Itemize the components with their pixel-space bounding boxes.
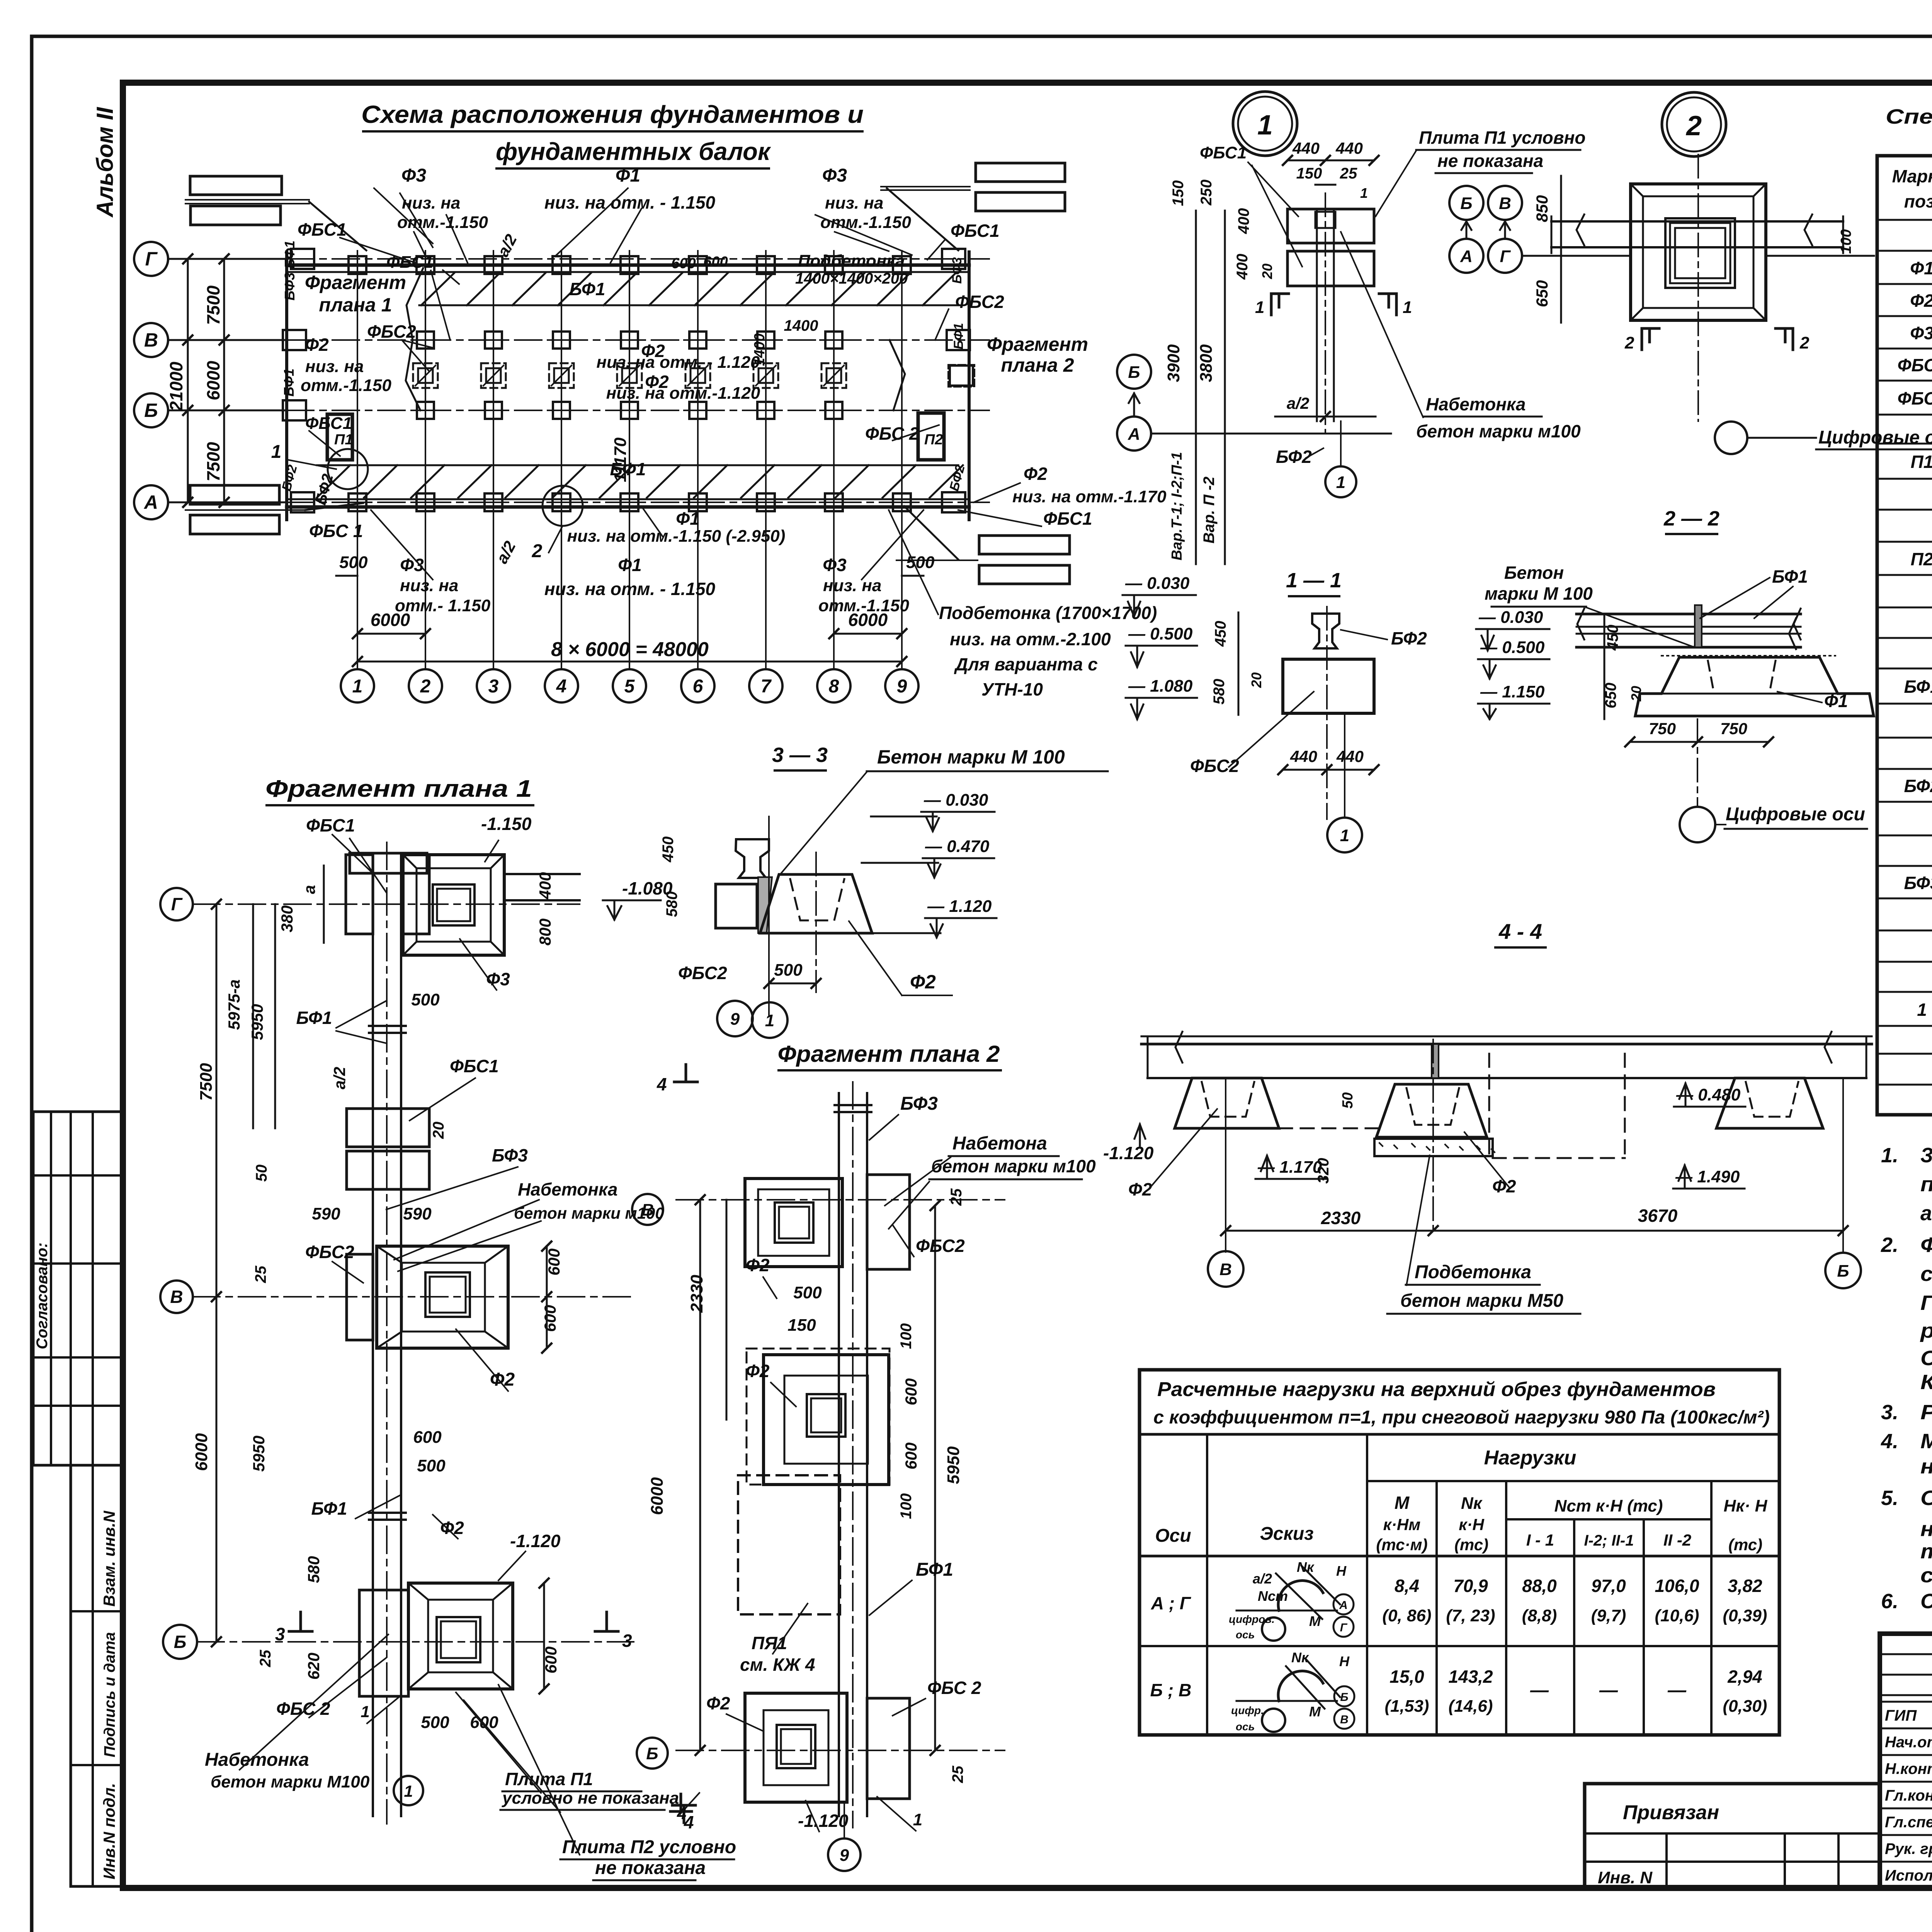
svg-text:25: 25	[252, 1265, 269, 1283]
svg-text:низ. на отм.-1.120: низ. на отм.-1.120	[606, 384, 760, 403]
leader line	[400, 193, 433, 247]
svg-text:Ф3: Ф3	[822, 165, 847, 186]
section mark 3 right	[595, 1612, 618, 1631]
3-3 rail beam	[736, 839, 769, 878]
4-4 dashed pit	[1488, 1054, 1490, 1158]
node2 axes circles	[1449, 186, 1483, 220]
svg-text:20: 20	[1248, 672, 1264, 688]
svg-text:ФБС1: ФБС1	[306, 815, 355, 835]
svg-text:150: 150	[787, 1316, 816, 1335]
svg-text:к·Нм: к·Нм	[1383, 1515, 1421, 1534]
svg-text:с коэффициентом п=1, при с: с коэффициентом п=1, при снеговой нагруз…	[1153, 1407, 1770, 1428]
svg-text:а: а	[300, 885, 318, 894]
svg-text:580: 580	[1211, 679, 1228, 705]
bottom dims	[336, 575, 357, 577]
svg-text:низ. на отм.-1.150 (-2.950): низ. на отм.-1.150 (-2.950)	[567, 527, 786, 546]
svg-text:Nк: Nк	[1291, 1650, 1309, 1665]
svg-text:I - 1: I - 1	[1526, 1531, 1554, 1549]
vertical beam БФ1	[372, 853, 374, 1816]
svg-text:Фрагмент плана 2: Фрагмент плана 2	[778, 1041, 1000, 1067]
svg-text:Ф1: Ф1	[676, 509, 700, 529]
svg-text:ось: ось	[1236, 1721, 1255, 1733]
foundation pads row В	[417, 332, 434, 349]
svg-text:П1: П1	[334, 432, 353, 448]
svg-text:Ф2: Ф2	[1910, 291, 1932, 311]
frag2 section mark 4	[670, 1794, 692, 1811]
4-4 mid Ф2 trapezoid	[1376, 1084, 1487, 1137]
frag2 axis 9 circle	[828, 1838, 861, 1871]
dim line 600 at Б	[543, 1583, 545, 1689]
leader line	[485, 840, 498, 862]
svg-text:Ф1: Ф1	[618, 555, 642, 575]
svg-text:За условную отметку 0.000: За условную отметку 0.000 принята отметк…	[1920, 1144, 1932, 1167]
svg-text:БФ3: БФ3	[950, 257, 964, 284]
leader line	[402, 340, 433, 348]
svg-text:20: 20	[1259, 264, 1275, 279]
svg-text:1400: 1400	[752, 333, 768, 366]
section 2-2 foundation Ф1	[1635, 657, 1874, 716]
svg-text:расчетными характеристиками: расчетными характеристиками :	[1920, 1319, 1932, 1342]
svg-text:низ. на отм.-1.170: низ. на отм.-1.170	[1012, 487, 1167, 506]
svg-text:ФБС1: ФБС1	[1043, 509, 1092, 529]
node1 left dims	[1195, 211, 1197, 286]
svg-text:800: 800	[536, 918, 554, 946]
svg-text:25: 25	[257, 1650, 274, 1667]
svg-text:ФБС1: ФБС1	[1200, 143, 1247, 162]
svg-text:100: 100	[898, 1493, 915, 1519]
svg-text:(тс): (тс)	[1454, 1536, 1488, 1554]
svg-text:— 0.470: — 0.470	[925, 837, 990, 856]
leader line	[374, 188, 433, 243]
svg-text:Подбетонка (1700×1700): Подбетонка (1700×1700)	[939, 603, 1157, 623]
svg-text:1: 1	[1340, 826, 1349, 845]
svg-text:600: 600	[671, 255, 696, 272]
svg-text:со спокойным рельефом при: со спокойным рельефом при отсутствии гру…	[1920, 1262, 1932, 1286]
svg-text:600: 600	[902, 1378, 920, 1405]
svg-text:Плита П1: Плита П1	[505, 1769, 593, 1789]
svg-text:Монтаж фундаментных балок ,: Монтаж фундаментных балок , вести в соот…	[1920, 1430, 1932, 1453]
svg-text:Б: Б	[1340, 1691, 1348, 1704]
svg-text:Гл.спец.: Гл.спец.	[1885, 1814, 1932, 1831]
svg-text:21000: 21000	[166, 362, 186, 412]
svg-text:— 1.150: — 1.150	[1480, 682, 1545, 701]
fragment 2 cut boundary	[889, 340, 905, 410]
svg-text:590: 590	[312, 1204, 340, 1223]
axis circle Г	[134, 242, 168, 276]
axis circle 5	[613, 669, 646, 702]
svg-text:2330: 2330	[687, 1275, 706, 1313]
svg-text:Взам. инв.N: Взам. инв.N	[100, 1510, 118, 1607]
leader line	[431, 270, 450, 340]
leader line	[336, 1031, 386, 1043]
section 2-2 bottom dims	[1630, 741, 1769, 743]
svg-text:низ. на отм.-2.100: низ. на отм.-2.100	[950, 629, 1111, 649]
svg-text:600: 600	[413, 1428, 442, 1447]
axis circle 9	[885, 669, 918, 702]
svg-text:3 — 3: 3 — 3	[772, 743, 828, 767]
leader line	[958, 510, 1041, 526]
svg-text:1: 1	[765, 1011, 774, 1030]
svg-text:ФБС1: ФБС1	[951, 221, 1000, 241]
svg-text:М: М	[1309, 1613, 1321, 1629]
leader line	[893, 1225, 914, 1257]
svg-text:Плита П2 условно: Плита П2 условно	[562, 1837, 736, 1857]
svg-text:отм.-1.150: отм.-1.150	[301, 376, 391, 395]
svg-text:750: 750	[1649, 719, 1676, 738]
svg-text:1: 1	[361, 1702, 369, 1721]
svg-text:-1.150: -1.150	[481, 814, 532, 834]
4-4 bottom dim	[1226, 1230, 1843, 1232]
svg-text:Ф2: Ф2	[490, 1369, 515, 1390]
svg-text:Б: Б	[174, 1632, 187, 1652]
frag2 underline	[949, 1155, 1059, 1157]
svg-text:цифров.: цифров.	[1229, 1613, 1275, 1625]
svg-text:Бетон: Бетон	[1504, 563, 1564, 583]
svg-text:Инв.N подл.: Инв.N подл.	[100, 1783, 118, 1879]
svg-text:Фундаменты запроектированы: Фундаменты запроектированы для строитель…	[1920, 1233, 1932, 1257]
svg-text:В: В	[1340, 1713, 1349, 1726]
svg-text:Цифровые оси: Цифровые оси	[1726, 804, 1865, 825]
svg-text:А: А	[143, 492, 158, 513]
svg-text:450: 450	[1212, 621, 1229, 647]
railway track top right	[976, 163, 1065, 182]
svg-text:Плита П1 условно: Плита П1 условно	[1419, 128, 1585, 148]
svg-text:низ. на отм. - 1.120: низ. на отм. - 1.120	[596, 353, 760, 372]
svg-text:8,4: 8,4	[1395, 1576, 1419, 1596]
svg-text:ФБС1: ФБС1	[298, 219, 347, 240]
svg-text:25: 25	[948, 1188, 965, 1206]
svg-text:— 1.080: — 1.080	[1128, 677, 1193, 696]
leader line	[869, 1115, 898, 1140]
svg-text:Альбом II: Альбом II	[92, 107, 118, 218]
svg-text:бетон марки М100: бетон марки М100	[211, 1772, 370, 1791]
svg-text:проездов кормораздаточного: проездов кормораздаточного транспорта , …	[1920, 1173, 1932, 1196]
node1 section marks	[1271, 294, 1289, 315]
svg-text:В: В	[144, 329, 158, 351]
leader line	[893, 1699, 925, 1716]
section 1-1 bottom dims	[1283, 769, 1374, 771]
svg-text:Бетон марки М 100: Бетон марки М 100	[877, 746, 1065, 768]
leader line	[456, 1692, 541, 1793]
svg-text:Вар. П -2: Вар. П -2	[1201, 476, 1218, 543]
svg-text:II -2: II -2	[1663, 1531, 1691, 1549]
svg-text:1: 1	[271, 442, 282, 462]
frag2 Ф2 foundation bottom	[745, 1693, 847, 1802]
svg-text:-1.120: -1.120	[798, 1811, 849, 1831]
svg-text:низ. на: низ. на	[400, 576, 458, 595]
svg-text:В: В	[170, 1287, 183, 1307]
svg-text:Б: Б	[1837, 1262, 1849, 1281]
svg-text:Nст: Nст	[1258, 1588, 1288, 1604]
foundation Ф2 at Б	[408, 1583, 513, 1689]
svg-text:3670: 3670	[1638, 1206, 1678, 1226]
svg-text:ФБС 1: ФБС 1	[309, 521, 363, 541]
svg-text:Обратную засыпку пазух и п: Обратную засыпку пазух и подсыпку грунта…	[1920, 1486, 1932, 1510]
svg-text:620: 620	[304, 1653, 323, 1680]
svg-text:2: 2	[420, 676, 431, 697]
leader line	[974, 483, 1020, 502]
leader line	[464, 1700, 560, 1812]
leader line	[355, 1495, 400, 1519]
corner blocks	[291, 249, 314, 269]
leader line	[309, 1658, 386, 1718]
svg-text:590: 590	[403, 1204, 432, 1223]
svg-text:Г: Г	[171, 894, 183, 914]
svg-text:9: 9	[897, 676, 907, 697]
leader line	[367, 1696, 400, 1723]
svg-text:М: М	[1309, 1704, 1321, 1719]
axes Б А left	[1117, 355, 1151, 389]
svg-text:320: 320	[1315, 1158, 1332, 1184]
svg-text:Ф2: Ф2	[1128, 1179, 1152, 1199]
svg-text:отм.- 1.150: отм.- 1.150	[395, 596, 491, 615]
svg-text:5950: 5950	[944, 1446, 963, 1484]
svg-text:5950: 5950	[250, 1435, 268, 1471]
svg-text:Согласовано:: Согласовано:	[34, 1243, 51, 1349]
svg-text:15,0: 15,0	[1389, 1667, 1424, 1687]
4-4 nabetonka joint	[1432, 1044, 1439, 1078]
svg-text:500: 500	[793, 1283, 822, 1302]
svg-text:БФ3: БФ3	[1904, 873, 1932, 893]
svg-text:440: 440	[1290, 747, 1317, 765]
svg-text:низ. на: низ. на	[823, 576, 881, 595]
svg-text:А: А	[1339, 1599, 1348, 1612]
node detail 2 circle	[1662, 92, 1726, 156]
4-4 verticals to axis circles	[1225, 1078, 1226, 1252]
svg-text:— 0.500: — 0.500	[1128, 624, 1193, 643]
axis circle 2	[409, 669, 442, 702]
svg-text:440: 440	[1292, 139, 1320, 157]
svg-text:абсолютной отметке: абсолютной отметке	[1920, 1202, 1932, 1225]
svg-text:1: 1	[1257, 110, 1273, 141]
svg-text:трамбованием слоями 0,2 ...: трамбованием слоями 0,2 ... 0,3 м до пол…	[1920, 1540, 1932, 1563]
svg-text:1: 1	[404, 1782, 413, 1800]
svg-text:3: 3	[622, 1631, 632, 1651]
4-4 beams	[1141, 1036, 1872, 1037]
3-3 speckle strip	[758, 877, 772, 933]
foundation pads row А	[349, 493, 366, 511]
svg-text:Расчетные нагрузки на верх: Расчетные нагрузки на верхний обрез фунд…	[1157, 1378, 1716, 1401]
svg-text:850: 850	[1533, 195, 1551, 222]
svg-text:УТН-10: УТН-10	[981, 679, 1043, 699]
svg-text:1400: 1400	[784, 317, 818, 334]
lower block ФБС2 at Б	[359, 1590, 408, 1696]
svg-text:С=2кПа(0,02кгс/см²); Ψ=0,49рад: С=2кПа(0,02кгс/см²); Ψ=0,49рад(28°) ; Е=…	[1920, 1347, 1932, 1370]
svg-text:не показана: не показана	[1437, 151, 1543, 171]
svg-text:Нк· Н: Нк· Н	[1724, 1497, 1768, 1515]
sketch row B;V	[1236, 1700, 1337, 1702]
3-3 block	[716, 884, 757, 928]
svg-text:Ф3: Ф3	[486, 969, 510, 989]
svg-text:500: 500	[421, 1713, 449, 1732]
svg-text:Ф1: Ф1	[616, 165, 640, 186]
svg-text:Фрагмент: Фрагмент	[987, 333, 1088, 355]
axis circle Б frag1	[163, 1625, 197, 1659]
svg-text:Ф2: Ф2	[440, 1518, 464, 1538]
loads table	[1139, 1370, 1779, 1735]
leader line	[402, 340, 429, 371]
4-4 axis circles	[1208, 1251, 1243, 1287]
leader line	[309, 431, 340, 456]
svg-text:Ф2: Ф2	[305, 335, 329, 355]
svg-text:Ф1: Ф1	[1910, 258, 1932, 278]
svg-text:440: 440	[1336, 747, 1364, 765]
svg-text:— 0.030: — 0.030	[1478, 608, 1543, 627]
leader line	[398, 1221, 541, 1271]
svg-text:50: 50	[1340, 1092, 1356, 1109]
svg-text:А ; Г: А ; Г	[1151, 1593, 1191, 1613]
svg-text:4.: 4.	[1881, 1430, 1898, 1453]
svg-text:Ф3: Ф3	[1910, 323, 1932, 343]
railway track bottom right	[979, 536, 1070, 554]
svg-text:Подбетонка: Подбетонка	[1415, 1262, 1531, 1282]
svg-text:отм.-1.150: отм.-1.150	[818, 596, 909, 615]
frag2 axis В line	[676, 1199, 1005, 1201]
section 2-2 dims	[1604, 614, 1605, 719]
axis circle Г frag1	[160, 888, 193, 920]
svg-text:20: 20	[430, 1122, 447, 1139]
svg-text:1 — 1: 1 — 1	[1286, 569, 1342, 592]
svg-text:Н: Н	[1336, 1563, 1347, 1579]
svg-text:7500: 7500	[203, 442, 223, 481]
svg-text:Б ; В: Б ; В	[1150, 1680, 1192, 1700]
svg-text:500: 500	[417, 1456, 446, 1475]
leader line	[889, 510, 938, 614]
leader line	[414, 232, 425, 255]
svg-text:600: 600	[541, 1305, 559, 1332]
svg-text:2.: 2.	[1881, 1233, 1898, 1257]
svg-text:а/2: а/2	[330, 1067, 349, 1089]
detail circle 1	[328, 449, 368, 489]
leader line	[893, 425, 939, 440]
svg-text:ФБС 2: ФБС 2	[927, 1678, 981, 1698]
svg-text:I-2; II-1: I-2; II-1	[1584, 1532, 1634, 1549]
svg-text:ФБС1: ФБС1	[1898, 355, 1932, 375]
leader line	[815, 215, 912, 255]
svg-text:а/2: а/2	[1287, 394, 1309, 412]
svg-text:ФБС2: ФБС2	[1190, 756, 1239, 776]
svg-text:П2: П2	[1911, 549, 1932, 569]
svg-text:500: 500	[411, 990, 440, 1009]
svg-text:ФБС2: ФБС2	[916, 1236, 965, 1256]
svg-text:2: 2	[1799, 333, 1810, 352]
svg-text:—: —	[1530, 1680, 1549, 1701]
axis circle В	[134, 323, 168, 357]
leader line	[498, 1685, 580, 1855]
svg-text:500: 500	[339, 553, 368, 572]
svg-text:А: А	[1460, 247, 1473, 266]
svg-text:— 0.030: — 0.030	[923, 791, 988, 810]
privyazan table	[1585, 1784, 1880, 1888]
svg-text:поз.: поз.	[1904, 191, 1932, 211]
svg-text:Для варианта с: Для варианта с	[954, 654, 1098, 674]
svg-text:— 1.120: — 1.120	[927, 897, 992, 916]
svg-text:1: 1	[913, 1810, 922, 1829]
svg-text:25: 25	[949, 1765, 966, 1783]
svg-text:450: 450	[660, 837, 677, 863]
svg-text:5950: 5950	[248, 1004, 266, 1040]
top blocks ФБС1	[346, 855, 373, 934]
svg-text:Ф2: Ф2	[746, 1255, 770, 1275]
svg-text:Цифровые оси: Цифровые оси	[1818, 427, 1932, 448]
axis circle 8	[817, 669, 850, 702]
3-3 verticals	[768, 816, 770, 1016]
node2 beams	[1551, 220, 1843, 223]
svg-text:Инв. N: Инв. N	[1598, 1868, 1653, 1887]
section 1-1 rail beam БФ2	[1312, 614, 1339, 648]
svg-text:7: 7	[761, 676, 772, 697]
circle detail 1 lower	[394, 1776, 423, 1805]
svg-text:Нагрузки: Нагрузки	[1484, 1447, 1577, 1469]
svg-text:88,0: 88,0	[1522, 1576, 1557, 1596]
svg-text:Фрагмент: Фрагмент	[305, 272, 406, 293]
svg-text:7500: 7500	[203, 285, 223, 325]
svg-text:—: —	[1667, 1680, 1687, 1701]
railway track bottom left	[190, 485, 279, 504]
4-4 podbetonka slab	[1374, 1139, 1493, 1156]
svg-text:бетон марки м100: бетон марки м100	[1416, 421, 1581, 441]
svg-text:Набетона: Набетона	[952, 1133, 1047, 1154]
svg-text:БФ3: БФ3	[900, 1094, 938, 1114]
svg-text:Вар.Т-1; I-2;П-1: Вар.Т-1; I-2;П-1	[1169, 452, 1185, 561]
svg-text:БФ1: БФ1	[296, 1008, 332, 1028]
svg-text:650: 650	[1533, 280, 1551, 307]
section mark 4 bottom	[672, 1805, 696, 1823]
svg-text:А: А	[1128, 425, 1140, 444]
3-3 axis circles 9 1	[717, 1001, 753, 1036]
node2 dims	[1560, 176, 1562, 256]
svg-text:ФБС 2: ФБС 2	[276, 1699, 330, 1719]
svg-text:Спецификация элементов к схе: Спецификация элементов к схеме расположе…	[1886, 105, 1932, 128]
svg-text:П2: П2	[924, 432, 943, 448]
slab П1	[327, 414, 352, 460]
node1 top dims	[1287, 160, 1374, 162]
svg-text:Рук. гр.: Рук. гр.	[1885, 1840, 1932, 1857]
svg-text:50: 50	[253, 1165, 270, 1182]
svg-text:(0,39): (0,39)	[1723, 1606, 1767, 1625]
svg-text:—: —	[1599, 1680, 1618, 1701]
svg-text:400: 400	[1235, 208, 1252, 235]
svg-text:3800: 3800	[1197, 344, 1216, 382]
svg-text:-1.120: -1.120	[510, 1531, 561, 1551]
leader line	[386, 1167, 518, 1209]
node1 plan	[1287, 209, 1374, 243]
svg-text:БФ1: БФ1	[311, 1498, 347, 1519]
leader line	[935, 309, 949, 340]
svg-text:1: 1	[1403, 298, 1412, 317]
svg-text:400: 400	[536, 872, 554, 900]
svg-text:ФБС1: ФБС1	[305, 414, 352, 433]
svg-text:6000: 6000	[192, 1433, 211, 1471]
foundation pads middle row Ф2	[413, 363, 438, 388]
node detail 1 circle	[1233, 92, 1297, 156]
svg-text:ФБС2: ФБС2	[1898, 388, 1932, 408]
svg-text:Подбетонка: Подбетонка	[798, 252, 905, 270]
4-4 right Ф2 trapezoid	[1716, 1078, 1823, 1128]
svg-text:600: 600	[470, 1713, 498, 1732]
axis circle 7	[749, 669, 782, 702]
svg-text:500: 500	[774, 961, 803, 980]
svg-text:-1.120: -1.120	[1103, 1143, 1154, 1163]
3-3 foundation Ф2 trapezoid	[760, 874, 872, 933]
node1 a/2 dim	[1275, 416, 1376, 418]
svg-text:400: 400	[1234, 254, 1251, 280]
svg-text:97,0: 97,0	[1591, 1576, 1626, 1596]
node2 section marks	[1642, 328, 1659, 350]
svg-text:8: 8	[829, 676, 839, 697]
svg-text:непучинистым грунтом оптим: непучинистым грунтом оптимальной влажнос…	[1920, 1517, 1932, 1541]
svg-text:600: 600	[703, 254, 728, 270]
